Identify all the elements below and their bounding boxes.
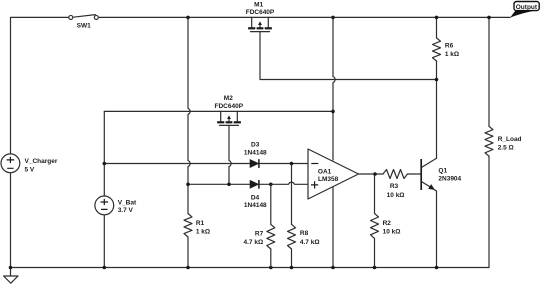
svg-text:R1: R1 bbox=[196, 220, 205, 227]
svg-text:2.5 Ω: 2.5 Ω bbox=[498, 145, 514, 152]
svg-text:R6: R6 bbox=[445, 43, 454, 50]
svg-text:10 kΩ: 10 kΩ bbox=[387, 192, 405, 199]
svg-text:Q1: Q1 bbox=[438, 167, 447, 174]
svg-text:2N3904: 2N3904 bbox=[438, 176, 461, 183]
svg-text:SW1: SW1 bbox=[77, 23, 91, 30]
svg-text:4.7 kΩ: 4.7 kΩ bbox=[300, 239, 320, 246]
svg-text:1N4148: 1N4148 bbox=[244, 202, 267, 209]
svg-text:10 kΩ: 10 kΩ bbox=[383, 228, 401, 235]
svg-text:Output: Output bbox=[516, 4, 538, 11]
svg-text:OA1: OA1 bbox=[318, 168, 332, 175]
svg-text:R7: R7 bbox=[255, 230, 264, 237]
svg-text:1 kΩ: 1 kΩ bbox=[196, 229, 210, 236]
svg-text:R3: R3 bbox=[390, 183, 399, 190]
svg-text:R2: R2 bbox=[383, 220, 392, 227]
svg-text:D3: D3 bbox=[251, 142, 260, 149]
svg-text:4.7 kΩ: 4.7 kΩ bbox=[244, 239, 264, 246]
svg-text:FDC640P: FDC640P bbox=[215, 103, 244, 110]
svg-text:FDC640P: FDC640P bbox=[246, 9, 275, 16]
svg-text:R8: R8 bbox=[300, 230, 309, 237]
svg-text:M2: M2 bbox=[224, 95, 233, 102]
svg-text:D4: D4 bbox=[251, 194, 260, 201]
svg-text:1N4148: 1N4148 bbox=[244, 149, 267, 156]
svg-text:1 kΩ: 1 kΩ bbox=[445, 51, 459, 58]
svg-text:R_Load: R_Load bbox=[498, 136, 522, 143]
svg-text:5 V: 5 V bbox=[25, 166, 35, 173]
svg-text:LM358: LM358 bbox=[318, 176, 339, 183]
svg-text:V_Charger: V_Charger bbox=[25, 158, 58, 165]
svg-text:M1: M1 bbox=[254, 1, 263, 8]
svg-text:V_Bat: V_Bat bbox=[118, 200, 137, 207]
svg-text:3.7 V: 3.7 V bbox=[118, 207, 134, 214]
